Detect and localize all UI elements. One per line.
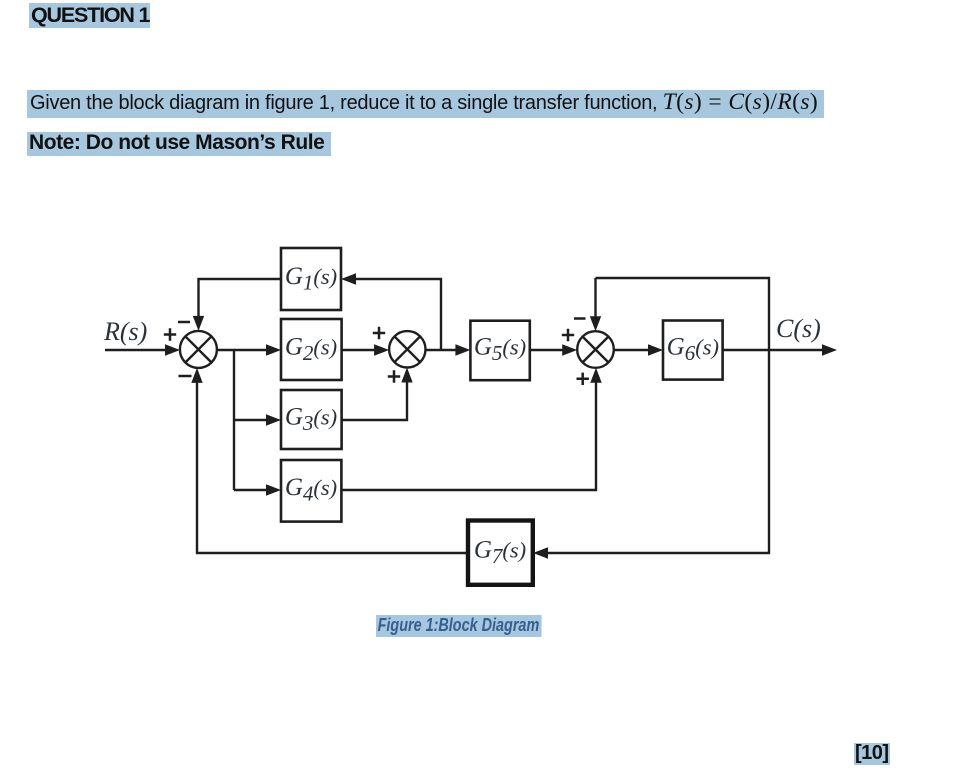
svg-text:C(s): C(s) xyxy=(776,314,821,343)
svg-text:G7(s): G7(s) xyxy=(474,537,526,569)
svg-text:R(s): R(s) xyxy=(103,317,147,346)
svg-text:G5(s): G5(s) xyxy=(474,334,526,366)
svg-text:G1(s): G1(s) xyxy=(285,263,337,295)
svg-text:G6(s): G6(s) xyxy=(667,334,719,366)
svg-text:G2(s): G2(s) xyxy=(285,334,337,366)
svg-text:G3(s): G3(s) xyxy=(285,404,337,436)
svg-text:G4(s): G4(s) xyxy=(285,474,337,506)
